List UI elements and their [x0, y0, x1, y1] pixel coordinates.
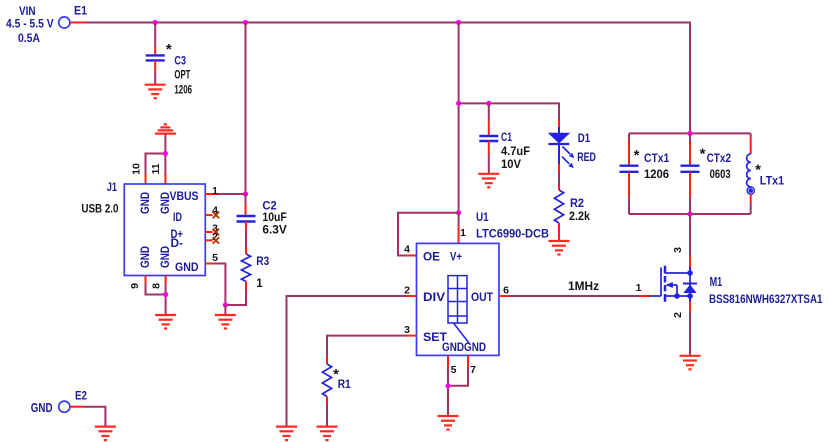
wire C2 branch vertical — [245, 23, 247, 195]
no-connect X pin 2 — [213, 237, 219, 243]
svg-text:3: 3 — [404, 324, 410, 336]
label U1 GND left — [442, 342, 464, 354]
label D1 — [577, 133, 596, 164]
svg-text:C1: C1 — [501, 132, 512, 144]
ground E2 — [95, 427, 116, 441]
label pin 3 U1 — [404, 324, 410, 336]
svg-text:2: 2 — [672, 312, 684, 318]
pin U1-2 DIV stub — [406, 295, 417, 297]
label J1 GND right — [175, 262, 199, 274]
ground J1 top (inverted) — [155, 124, 176, 133]
svg-text:4.5 - 5.5 V: 4.5 - 5.5 V — [6, 19, 54, 31]
label LTC6990-DCB — [476, 229, 549, 241]
svg-text:CTx2: CTx2 — [707, 153, 731, 165]
svg-text:U1: U1 — [476, 212, 489, 224]
wire OE loop — [398, 213, 459, 256]
transistor M1 — [650, 266, 697, 302]
wire C3 top lead — [154, 23, 156, 56]
wire VIN top rail — [85, 23, 690, 134]
wire pins 8-9 join — [146, 285, 166, 316]
pin J1-10 stub — [145, 174, 147, 184]
svg-text:9: 9 — [129, 283, 141, 289]
node junction pin8-9 — [163, 292, 168, 297]
wire U1 ground join — [448, 367, 468, 416]
pin U1-1 V+ stub — [458, 213, 460, 244]
svg-text:VBUS: VBUS — [170, 191, 199, 203]
svg-text:1MHz: 1MHz — [568, 281, 599, 293]
node junction C1 tap — [486, 101, 491, 106]
svg-text:GND: GND — [464, 342, 486, 354]
ic U1 box — [417, 243, 500, 355]
label pin 2 J1 — [212, 231, 218, 243]
label pin 4 J1 — [212, 205, 218, 217]
label pin 8 — [151, 283, 163, 289]
wire CTx1 bottom lead — [628, 172, 630, 214]
ground DIV — [276, 427, 297, 441]
capacitor CTx2 — [681, 166, 700, 172]
label pin 9 — [129, 283, 141, 289]
pin J1-5 GND stub — [205, 263, 214, 265]
svg-text:LTC6990-DCB: LTC6990-DCB — [476, 229, 549, 241]
label USB 2.0 — [81, 202, 118, 216]
label M1 — [709, 275, 823, 306]
label pin 5 J1 — [212, 252, 218, 264]
wire CTx2 top lead — [689, 133, 691, 165]
svg-text:5: 5 — [212, 252, 218, 264]
node junction OE loop — [456, 210, 461, 215]
label U1 DIV — [423, 292, 445, 304]
resistor R1 — [322, 364, 331, 397]
svg-text:5: 5 — [451, 364, 457, 376]
label U1 OE — [423, 252, 440, 264]
svg-text:RED: RED — [577, 152, 596, 164]
pin J1-1 VBUS stub — [205, 193, 218, 195]
svg-text:6: 6 — [503, 285, 509, 297]
svg-text:GND: GND — [140, 192, 152, 214]
ground R3/pin5 — [215, 315, 236, 329]
svg-text:VIN: VIN — [19, 6, 36, 18]
ground U1 — [438, 416, 459, 430]
svg-text:0.5A: 0.5A — [18, 33, 40, 45]
wire tank top rail — [629, 132, 751, 134]
ground J1 bottom — [155, 315, 176, 329]
pin J1-11 stub — [164, 174, 166, 184]
label U1 GND right — [464, 342, 486, 354]
label pin 2 M1 — [672, 312, 684, 318]
label 1MHz — [568, 281, 599, 293]
label J1 VBUS — [170, 191, 199, 203]
ground C1 — [478, 174, 499, 188]
label pin 11 — [150, 163, 162, 174]
capacitor CTx1 — [620, 166, 639, 172]
svg-text:2.2k: 2.2k — [569, 211, 591, 223]
svg-text:GND: GND — [140, 246, 152, 268]
wire LTx1 bottom lead — [750, 194, 752, 214]
svg-text:1206: 1206 — [644, 169, 669, 181]
svg-text:8: 8 — [151, 283, 163, 289]
label E2 port text — [31, 391, 87, 416]
label CTx2 — [700, 146, 731, 182]
wire J1 top ground to pins — [146, 134, 166, 174]
wire DIV to ground — [287, 296, 407, 427]
svg-text:D-: D- — [171, 238, 184, 250]
svg-text:10: 10 — [131, 163, 143, 175]
symbol U1 divider grid — [448, 276, 469, 343]
label pin 1 U1 — [460, 227, 466, 239]
node junction U1 branch — [456, 20, 461, 25]
label C3 values — [166, 41, 192, 96]
wire R1 bottom — [326, 397, 328, 427]
label J1 GND rotated top-right — [160, 192, 172, 214]
diode D1 LED — [548, 133, 574, 168]
svg-text:E1: E1 — [74, 6, 88, 18]
label pin 1 M1 — [636, 282, 642, 294]
svg-text:OPT: OPT — [174, 70, 190, 82]
svg-text:1: 1 — [460, 227, 466, 239]
svg-text:0603: 0603 — [710, 169, 731, 181]
wire R3 bottom — [225, 281, 246, 305]
label pin 5 U1 — [451, 364, 457, 376]
wire C3 bottom lead — [154, 60, 156, 84]
label U1 V+ — [450, 252, 462, 264]
svg-text:C3: C3 — [174, 55, 186, 67]
svg-text:*: * — [700, 146, 706, 163]
svg-text:10V: 10V — [501, 159, 521, 171]
svg-text:3: 3 — [672, 247, 684, 253]
node junction VBUS-C2 — [243, 191, 248, 196]
svg-text:*: * — [166, 41, 172, 58]
label E1 port text — [6, 6, 88, 46]
pin J1-8 stub — [165, 276, 167, 285]
svg-text:E2: E2 — [75, 391, 87, 403]
svg-text:1: 1 — [212, 185, 218, 197]
ground C3 — [145, 85, 166, 99]
label R2 — [569, 198, 591, 223]
capacitor C3 — [146, 55, 165, 60]
pin U1-7 stub — [467, 355, 469, 367]
label pin 3 M1 — [672, 247, 684, 253]
svg-text:OE: OE — [423, 252, 440, 264]
pin U1-6 OUT stub — [499, 295, 509, 297]
ground M1 — [680, 356, 701, 370]
no-connect X pin 3 — [213, 229, 219, 235]
svg-text:R2: R2 — [570, 198, 584, 210]
svg-text:LTx1: LTx1 — [760, 175, 785, 187]
wire V+ rail to D1 — [459, 103, 559, 113]
wire tank bottom rail — [629, 213, 751, 215]
wire R2 bottom lead — [558, 223, 560, 241]
connector J1 box — [124, 184, 205, 276]
node junction U1 gnd — [445, 383, 450, 388]
svg-text:R3: R3 — [256, 256, 269, 268]
wire SET to R1 — [327, 336, 406, 364]
node junction R3-pin5 — [223, 302, 228, 307]
svg-text:10uF: 10uF — [262, 212, 286, 224]
label pin 1 J1 — [212, 185, 218, 197]
port E1 — [59, 17, 85, 28]
svg-text:GND: GND — [31, 401, 53, 415]
svg-text:GND: GND — [442, 342, 464, 354]
wire M1 drain — [689, 214, 691, 273]
svg-text:ID: ID — [173, 212, 182, 224]
label pin 6 U1 — [503, 285, 509, 297]
resistor R2 — [554, 190, 563, 223]
pin J1-2 D- stub — [205, 239, 212, 241]
label J1 ID — [173, 212, 182, 224]
svg-text:D1: D1 — [578, 133, 591, 145]
inductor LTx1 — [747, 154, 755, 194]
node junction tank bottom — [687, 211, 692, 216]
label C2 values — [262, 200, 287, 236]
svg-text:OUT: OUT — [471, 292, 493, 304]
wire VBUS to C2 node — [218, 193, 246, 195]
label U1 OUT — [471, 292, 493, 304]
wire C2 to R3 — [245, 222, 247, 255]
wire LTx1 top lead — [750, 133, 752, 154]
node junction C2 branch — [243, 20, 248, 25]
svg-text:V+: V+ — [450, 252, 462, 264]
node junction C3 tap — [153, 20, 158, 25]
label pin 3 J1 — [212, 223, 218, 235]
svg-text:BSS816NWH6327XTSA1: BSS816NWH6327XTSA1 — [709, 292, 823, 306]
wire D1 to R2 — [558, 164, 560, 190]
label J1 — [107, 182, 118, 194]
svg-text:11: 11 — [150, 163, 162, 174]
label U1 SET — [423, 332, 447, 344]
wire CTx2 bottom lead — [689, 172, 691, 214]
label J1 D- — [171, 238, 184, 250]
svg-text:J1: J1 — [107, 182, 118, 194]
wire M1 gate — [640, 295, 650, 297]
svg-text:C2: C2 — [262, 200, 276, 212]
label C1 values — [501, 132, 530, 171]
label J1 D+ — [171, 229, 184, 241]
node junction pins 10-11 — [163, 151, 168, 156]
wire M1 source — [689, 296, 691, 356]
label R1 — [333, 366, 351, 391]
label J1 GND rotated top-left — [140, 192, 152, 214]
svg-text:CTx1: CTx1 — [644, 153, 670, 165]
no-connect X pin 4 — [213, 212, 219, 218]
wire pin5 to ground — [214, 264, 225, 306]
capacitor C1 — [479, 136, 498, 141]
label J1 GND rotated bottom-left — [140, 246, 152, 268]
pin J1-9 stub — [145, 276, 147, 285]
wire D1 top lead — [558, 113, 560, 133]
ground R1 — [317, 427, 338, 441]
svg-text:*: * — [634, 147, 640, 164]
svg-text:USB 2.0: USB 2.0 — [81, 202, 118, 216]
wire C1 top lead — [488, 103, 490, 136]
label pin 2 U1 — [404, 285, 410, 297]
svg-text:4: 4 — [404, 244, 410, 256]
svg-text:2: 2 — [404, 285, 410, 297]
label LTx1 — [755, 162, 785, 188]
wire C1 bottom lead — [488, 141, 490, 174]
label CTx1 — [634, 147, 670, 181]
wire OUT to M1 gate — [509, 295, 640, 297]
svg-text:M1: M1 — [710, 275, 723, 289]
pin J1-3 D+ stub — [205, 231, 212, 233]
wire E2 to ground — [84, 407, 105, 427]
ground R2 — [549, 241, 570, 255]
pin J1-4 ID stub — [205, 214, 212, 216]
wire CTx1 top lead — [628, 133, 630, 165]
label pin 10 — [131, 163, 143, 175]
node junction tank top — [687, 131, 692, 136]
resistor R3 — [241, 254, 250, 281]
pin U1-5 stub — [447, 355, 449, 367]
pin U1-4 OE stub — [406, 255, 417, 257]
svg-text:1206: 1206 — [174, 84, 192, 96]
svg-text:GND: GND — [175, 262, 199, 274]
label U1 — [476, 212, 489, 224]
port E2 — [59, 401, 84, 412]
label pin 7 U1 — [470, 364, 476, 376]
pin U1-3 SET stub — [406, 335, 417, 337]
svg-text:1: 1 — [636, 282, 642, 294]
svg-text:DIV: DIV — [423, 292, 445, 304]
svg-text:7: 7 — [470, 364, 476, 376]
svg-text:4.7uF: 4.7uF — [501, 146, 530, 158]
svg-text:1: 1 — [256, 278, 263, 290]
label R3 — [256, 256, 269, 290]
wire C2 top lead — [245, 194, 247, 216]
svg-text:R1: R1 — [338, 379, 352, 391]
label J1 GND rotated bottom-right — [160, 246, 172, 268]
label pin 4 U1 — [404, 244, 410, 256]
svg-text:6.3V: 6.3V — [262, 225, 287, 237]
node junction V+ rail — [456, 101, 461, 106]
wire to ground R3 — [224, 305, 226, 315]
wire U1 branch vertical — [458, 23, 460, 213]
capacitor C2 — [237, 216, 256, 222]
